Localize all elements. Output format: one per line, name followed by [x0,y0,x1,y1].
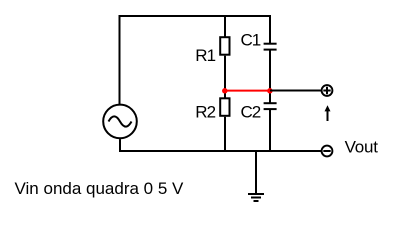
ground symbol [248,194,264,201]
wire: R2 bottom lead [224,117,226,152]
wire: R1 bottom lead [224,56,226,91]
terminal - [322,146,333,157]
junction dot: left (R1/R2 midpoint) [222,88,228,94]
capacitor C1 [264,44,277,50]
wire: node to + terminal [270,90,321,92]
capacitor C2 [264,103,277,109]
wire: C2 top lead [269,90,271,103]
wire: C2 bottom lead [269,109,271,152]
svg-text:Vin onda quadra 0 5 V: Vin onda quadra 0 5 V [15,179,185,198]
svg-text:C1: C1 [241,31,261,50]
AC source V1 [103,105,137,139]
wire: bottom bus [119,150,321,152]
resistor R1 [220,37,229,55]
terminal + [322,85,333,96]
resistor R2 [220,98,229,116]
svg-text:R2: R2 [195,102,215,121]
wire: top bus [119,15,272,17]
wire: C1 top lead [269,15,271,44]
junction dot: right (C1/C2 midpoint) [267,88,273,94]
arrow: output polarity (up) [325,105,331,121]
svg-text:R1: R1 [195,46,215,65]
wire: C1 bottom lead [269,50,271,91]
svg-text:Vout: Vout [345,138,379,157]
wire: ground stem [255,151,257,194]
svg-text:C2: C2 [241,103,261,122]
wire: red node between R divider and C divider [225,90,270,92]
wire: R1 top lead [224,15,226,37]
wire: left vertical from top bus to source [119,15,121,104]
wire: source bottom lead [119,139,121,152]
wire: R2 top lead [224,90,226,98]
